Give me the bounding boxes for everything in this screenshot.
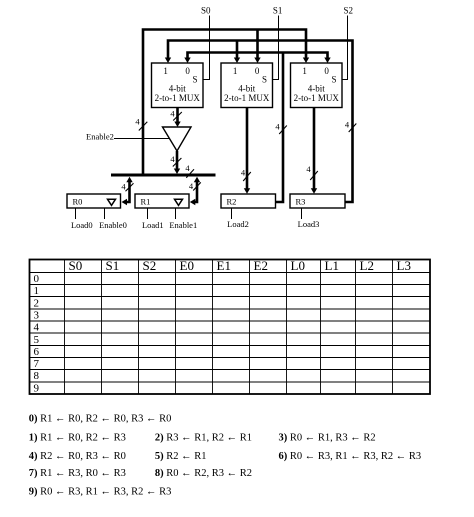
- svg-text:R3: R3: [296, 196, 306, 206]
- svg-text:L1: L1: [325, 258, 339, 273]
- svg-text:6) R0 ← R3, R1 ← R3, R2 ← R3: 6) R0 ← R3, R1 ← R3, R2 ← R3: [279, 451, 422, 462]
- svg-text:4: 4: [121, 182, 126, 192]
- svg-text:1: 1: [233, 66, 238, 76]
- svg-text:L0: L0: [291, 258, 305, 273]
- svg-text:4: 4: [170, 154, 175, 164]
- svg-text:4: 4: [241, 168, 246, 178]
- svg-text:4: 4: [34, 322, 40, 334]
- svg-text:1: 1: [34, 285, 40, 297]
- svg-text:Load1: Load1: [142, 220, 164, 230]
- svg-text:1: 1: [163, 66, 168, 76]
- svg-text:7: 7: [34, 358, 40, 370]
- svg-text:2-to-1 MUX: 2-to-1 MUX: [224, 93, 270, 103]
- svg-text:Load2: Load2: [227, 219, 249, 229]
- svg-text:8: 8: [34, 370, 40, 382]
- svg-text:4: 4: [345, 120, 350, 130]
- svg-text:4) R2 ← R0, R3 ← R0: 4) R2 ← R0, R3 ← R0: [29, 451, 126, 462]
- svg-text:E0: E0: [180, 258, 194, 273]
- svg-text:8) R0 ← R2, R3 ← R2: 8) R0 ← R2, R3 ← R2: [155, 468, 252, 479]
- svg-text:4-bit: 4-bit: [238, 84, 255, 94]
- svg-text:E1: E1: [217, 258, 231, 273]
- svg-text:4: 4: [275, 122, 280, 132]
- svg-text:4-bit: 4-bit: [308, 84, 325, 94]
- svg-text:4: 4: [135, 117, 140, 127]
- svg-text:2-to-1 MUX: 2-to-1 MUX: [155, 93, 201, 103]
- svg-text:3: 3: [34, 310, 40, 322]
- svg-text:5: 5: [34, 334, 40, 346]
- svg-text:2-to-1 MUX: 2-to-1 MUX: [294, 93, 340, 103]
- svg-text:S: S: [262, 75, 267, 85]
- svg-text:L2: L2: [360, 258, 374, 273]
- svg-text:3) R0 ← R1, R3 ← R2: 3) R0 ← R1, R3 ← R2: [279, 433, 376, 444]
- svg-text:E2: E2: [254, 258, 268, 273]
- svg-text:S1: S1: [273, 6, 283, 16]
- svg-text:Load3: Load3: [298, 219, 320, 229]
- svg-text:4: 4: [189, 181, 194, 191]
- svg-text:2) R3 ← R1, R2 ← R1: 2) R3 ← R1, R2 ← R1: [155, 433, 252, 444]
- svg-text:S: S: [331, 75, 336, 85]
- svg-text:Enable2: Enable2: [86, 132, 114, 142]
- svg-text:S0: S0: [201, 6, 211, 16]
- svg-text:5) R2 ← R1: 5) R2 ← R1: [155, 451, 207, 462]
- svg-text:L3: L3: [397, 258, 411, 273]
- svg-text:0: 0: [34, 273, 40, 285]
- svg-text:R2: R2: [227, 196, 237, 206]
- svg-text:6: 6: [34, 346, 40, 358]
- svg-text:9) R0 ← R3, R1 ← R3, R2 ← R3: 9) R0 ← R3, R1 ← R3, R2 ← R3: [29, 487, 172, 498]
- svg-text:7) R1 ← R3, R0 ← R3: 7) R1 ← R3, R0 ← R3: [29, 468, 126, 479]
- svg-text:9: 9: [34, 382, 40, 394]
- svg-text:1: 1: [302, 66, 307, 76]
- svg-text:S1: S1: [106, 258, 120, 273]
- svg-text:Enable0: Enable0: [99, 220, 127, 230]
- svg-text:S2: S2: [143, 258, 157, 273]
- svg-text:S: S: [192, 75, 197, 85]
- svg-text:Load0: Load0: [71, 220, 93, 230]
- svg-text:S2: S2: [343, 6, 353, 16]
- svg-text:R1: R1: [141, 196, 151, 206]
- svg-text:Enable1: Enable1: [169, 220, 197, 230]
- svg-text:2: 2: [34, 297, 40, 309]
- svg-text:4: 4: [170, 109, 175, 119]
- svg-text:4: 4: [306, 164, 311, 174]
- svg-text:1) R1 ← R0, R2 ← R3: 1) R1 ← R0, R2 ← R3: [29, 433, 126, 444]
- svg-text:4-bit: 4-bit: [169, 84, 186, 94]
- svg-text:0: 0: [185, 66, 190, 76]
- svg-text:0: 0: [324, 66, 329, 76]
- svg-text:S0: S0: [69, 258, 83, 273]
- svg-text:0: 0: [255, 66, 260, 76]
- svg-text:4: 4: [185, 163, 190, 173]
- svg-text:0) R1 ← R0, R2 ← R0, R3 ← R0: 0) R1 ← R0, R2 ← R0, R3 ← R0: [29, 414, 172, 425]
- svg-text:R0: R0: [73, 196, 83, 206]
